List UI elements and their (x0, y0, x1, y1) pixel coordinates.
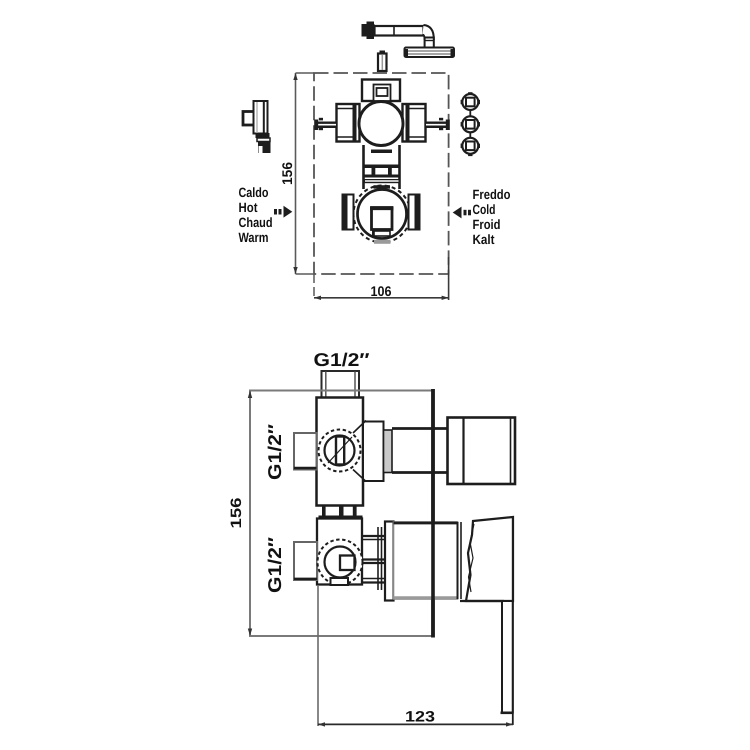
hot label (239, 185, 273, 245)
thermostat left arm (337, 104, 360, 142)
neck between controls (364, 145, 400, 189)
shower head (405, 48, 455, 58)
upper G1/2 port stub (294, 433, 317, 470)
right supply pipe (426, 118, 450, 130)
volume knob dashed circle (354, 186, 411, 243)
svg-text:G1/2″: G1/2″ (264, 537, 285, 593)
svg-text:G1/2″: G1/2″ (264, 424, 285, 480)
knob pipe (392, 429, 448, 473)
dimension 123 (318, 586, 513, 727)
dimension 106 (top view) (314, 257, 449, 300)
lower port circle (318, 540, 363, 586)
svg-text:Warm: Warm (239, 230, 269, 245)
top outlet stub G1/2 (322, 371, 360, 398)
lever handle paddle (460, 517, 514, 725)
thermostat chamfer to knob (353, 421, 384, 482)
volume knob circle (358, 190, 407, 239)
mounting bolt 2 (461, 110, 480, 132)
svg-text:Chaud: Chaud (239, 215, 273, 230)
lever handle grip (466, 517, 513, 601)
svg-text:Caldo: Caldo (239, 185, 269, 200)
shower arm wall flange (362, 22, 375, 40)
svg-text:Kalt: Kalt (473, 232, 495, 247)
knob nipple (384, 430, 393, 473)
svg-text:G1/2″: G1/2″ (314, 349, 370, 370)
thermostat right arm (403, 104, 426, 142)
volume knob bottom cap (374, 240, 391, 244)
volume cartridge body (side) (317, 519, 362, 585)
svg-text:Freddo: Freddo (473, 187, 511, 202)
shower arm elbow (423, 25, 434, 48)
volume right stubs (362, 527, 385, 590)
thermostat top arm (362, 80, 400, 102)
svg-text:156: 156 (279, 162, 295, 185)
volume flange (385, 522, 394, 601)
hot arrow (274, 206, 292, 218)
bridge between cartridges (319, 506, 363, 519)
volume knob square insert (370, 208, 394, 237)
dimension 156 (side view) (228, 391, 252, 637)
mounting bolt 1 (461, 92, 480, 110)
cold arrow (453, 207, 471, 219)
dimension 156 (top view) (279, 73, 314, 274)
svg-text:Cold: Cold (473, 202, 496, 217)
thermostat cartridge body (side) (317, 398, 364, 506)
thermostat knob (side) (448, 418, 516, 485)
thermostat central circle (359, 102, 403, 146)
volume cartridge barrel (394, 522, 462, 599)
cold label (473, 187, 511, 247)
handle side view (left) (243, 101, 271, 153)
volume knob left tab (343, 195, 354, 230)
shower arm pipe (375, 26, 424, 36)
dashed wall box (top view) (314, 73, 449, 274)
upper port circle (319, 430, 361, 472)
shower outlet stub (378, 51, 387, 72)
volume knob right tab (409, 195, 420, 230)
svg-text:Hot: Hot (239, 200, 258, 215)
svg-text:106: 106 (371, 283, 392, 299)
left supply pipe (314, 118, 336, 130)
wall box edge over stub (321, 390, 361, 392)
mounting bolt 3 (461, 132, 480, 156)
lower G1/2 port stub (294, 542, 317, 580)
svg-text:Froid: Froid (473, 217, 501, 232)
wall box (side view) (250, 389, 433, 638)
svg-text:156: 156 (228, 498, 245, 529)
wall surface line overlay (431, 389, 435, 638)
svg-text:123: 123 (405, 709, 435, 726)
